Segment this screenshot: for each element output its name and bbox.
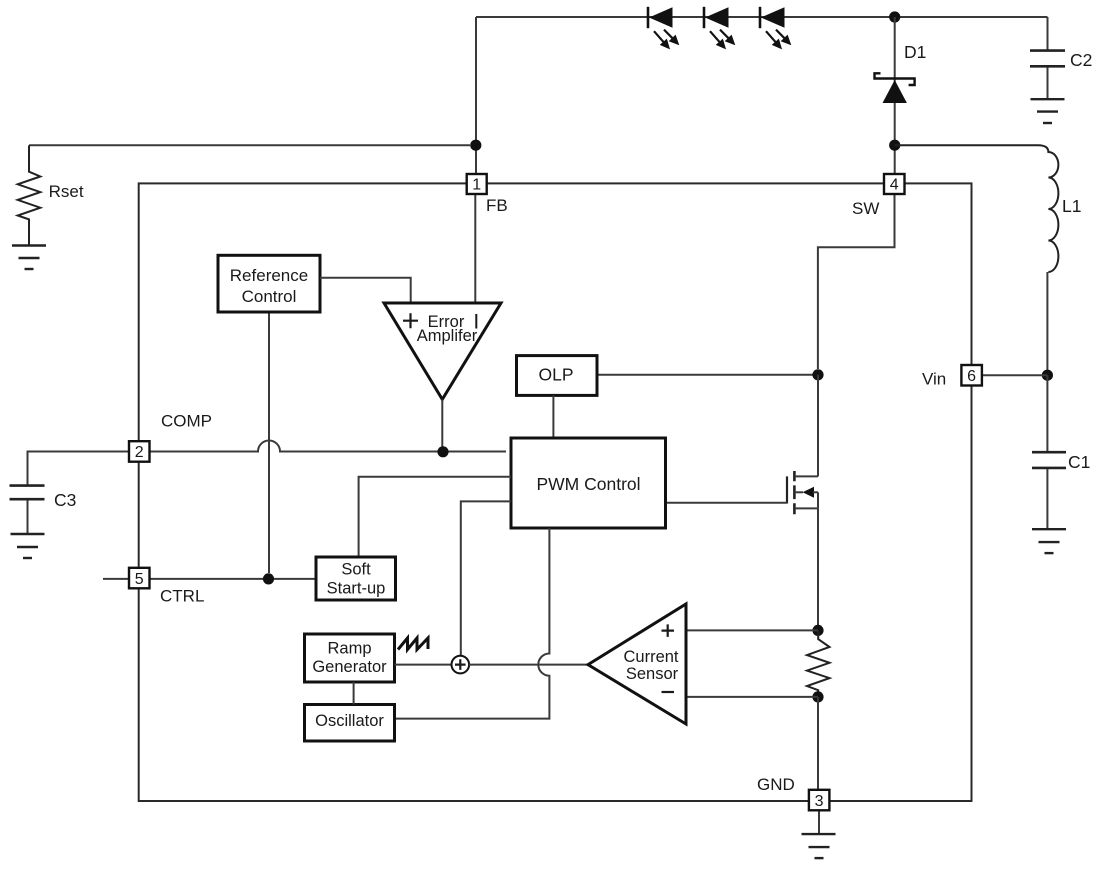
label COMP <box>161 412 212 431</box>
label D1 <box>904 42 926 62</box>
svg-text:Oscillator: Oscillator <box>315 712 384 730</box>
svg-text:L1: L1 <box>1062 196 1081 216</box>
label C2 <box>1070 50 1092 70</box>
label Rset <box>49 182 84 201</box>
pin 2 COMP <box>129 441 150 462</box>
node Vin/C1 junction <box>1042 370 1053 381</box>
wire summing node to current sensor <box>469 664 588 666</box>
svg-text:4: 4 <box>890 177 899 194</box>
block OLP <box>517 356 598 396</box>
wire current sensor minus input <box>686 696 818 698</box>
svg-text:1: 1 <box>472 177 481 194</box>
op-amp U2 Current Sensor <box>588 604 686 724</box>
block Ramp Generator <box>305 634 395 682</box>
label L1 <box>1062 196 1081 216</box>
LED LED1 <box>648 7 679 50</box>
wire ramp generator to oscillator <box>353 682 355 705</box>
block PWM Control <box>511 438 666 528</box>
wire ramp generator to summing node <box>395 664 452 666</box>
wire FB riser <box>475 17 477 174</box>
pin 5 CTRL <box>129 568 150 589</box>
wire GND pin to ground <box>818 810 820 833</box>
svg-text:Start-up: Start-up <box>327 580 386 598</box>
node sense resistor bottom <box>812 691 823 702</box>
svg-text:C2: C2 <box>1070 50 1092 70</box>
svg-text:D1: D1 <box>904 42 926 62</box>
svg-text:Rset: Rset <box>49 182 84 201</box>
svg-text:Amplifer: Amplifer <box>417 327 478 345</box>
wire OLP output <box>597 374 818 376</box>
svg-text:Generator: Generator <box>312 658 387 676</box>
svg-text:2: 2 <box>135 444 144 461</box>
block Soft Start-up <box>316 557 396 600</box>
block Reference Control <box>218 255 320 312</box>
label CTRL <box>160 587 204 606</box>
svg-text:3: 3 <box>815 793 824 810</box>
capacitor C1 <box>1032 375 1066 528</box>
sawtooth waveform symbol <box>398 638 428 650</box>
block Oscillator <box>305 705 395 742</box>
diode D1 (schottky) <box>875 73 915 103</box>
wire D1 branch <box>894 17 896 174</box>
svg-text:C1: C1 <box>1068 452 1090 472</box>
label C3 <box>54 490 76 510</box>
svg-text:C3: C3 <box>54 490 76 510</box>
svg-text:FB: FB <box>486 196 508 215</box>
wire reference control to error amp plus input <box>320 278 411 303</box>
capacitor C2 <box>1030 17 1065 98</box>
label FB <box>486 196 508 215</box>
label SW <box>852 199 879 218</box>
wire PWM to soft start <box>359 477 511 557</box>
node OLP/SW-drain junction <box>812 369 823 380</box>
wire CTRL line <box>150 578 316 580</box>
op-amp U1 Error Amplifier <box>384 303 501 399</box>
capacitor C3 <box>10 486 45 533</box>
wire PWM bottom to oscillator with hop <box>395 528 550 719</box>
label C1 <box>1068 452 1090 472</box>
wire Vin pin to junction <box>982 374 1047 376</box>
wire current sensor plus input <box>686 629 818 631</box>
svg-text:SW: SW <box>852 199 879 218</box>
svg-text:PWM Control: PWM Control <box>536 474 640 494</box>
label GND <box>757 775 795 794</box>
wire PWM to summing node <box>461 501 511 655</box>
ground below C2 <box>1031 99 1065 123</box>
wire reference control to CTRL node <box>268 312 270 573</box>
LED LED2 <box>704 7 735 50</box>
label Vin <box>922 370 946 389</box>
pin 6 Vin <box>961 365 982 386</box>
inductor L1 <box>895 145 1059 370</box>
summing node <box>452 656 470 674</box>
svg-text:6: 6 <box>967 368 976 385</box>
ground below C1 <box>1032 529 1066 553</box>
wire COMP line with hop <box>150 441 506 452</box>
pin 4 SW <box>884 174 905 194</box>
LED LED3 <box>760 7 791 50</box>
wire pin4 to MOSFET drain branch <box>818 194 895 369</box>
node COMP/error amp junction <box>437 446 448 457</box>
wire top rail <box>476 16 1048 18</box>
resistor Rsense <box>807 630 830 697</box>
wire error amp output <box>441 399 443 451</box>
transistor Q1 (power MOSFET) <box>787 471 818 514</box>
node CTRL junction <box>263 573 274 584</box>
ground below C3 <box>11 534 45 558</box>
svg-text:Control: Control <box>242 287 297 306</box>
wire to GND pin <box>817 697 819 790</box>
resistor Rset <box>18 145 41 244</box>
node SW/L1 junction <box>889 140 900 151</box>
node top rail / D1 junction <box>889 11 900 22</box>
svg-text:5: 5 <box>135 571 144 588</box>
svg-text:Soft: Soft <box>341 561 371 579</box>
svg-text:GND: GND <box>757 775 795 794</box>
wire CTRL stub left <box>103 578 129 580</box>
pin 1 FB <box>467 174 487 194</box>
svg-text:CTRL: CTRL <box>160 587 204 606</box>
svg-text:Sensor: Sensor <box>626 665 679 683</box>
wire Rset to FB node <box>29 144 470 146</box>
node sense resistor top <box>812 625 823 636</box>
IC boundary box <box>139 183 972 801</box>
ground below Rset <box>12 246 46 270</box>
svg-text:Ramp: Ramp <box>327 640 371 658</box>
wire gate lead <box>666 502 788 504</box>
ground below pin 3 <box>802 834 836 858</box>
svg-text:Current: Current <box>623 648 678 666</box>
wire source down <box>817 508 819 630</box>
wire pin2 to C3 <box>28 452 130 485</box>
wire OLP to PWM <box>552 395 554 438</box>
wire drain down <box>817 375 819 477</box>
svg-text:COMP: COMP <box>161 412 212 431</box>
wire FB pin to error amp <box>474 194 476 303</box>
svg-text:Reference: Reference <box>230 266 308 285</box>
node FB-Rset junction <box>470 140 481 151</box>
svg-text:OLP: OLP <box>538 365 573 385</box>
svg-text:Vin: Vin <box>922 370 946 389</box>
pin 3 GND <box>809 790 830 811</box>
